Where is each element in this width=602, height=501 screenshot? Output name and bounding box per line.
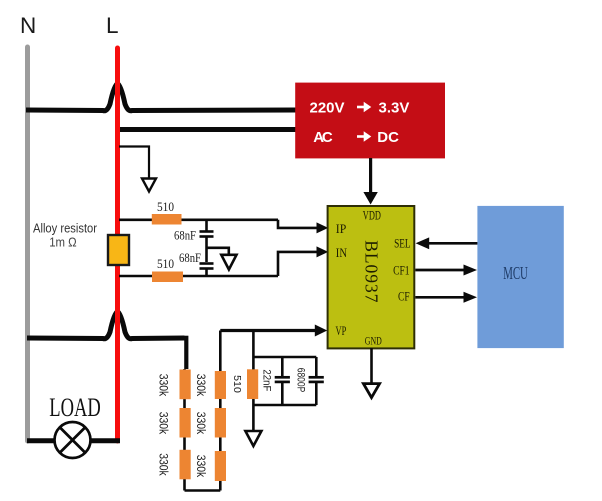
svg-text:AC: AC bbox=[313, 129, 333, 146]
svg-text:510: 510 bbox=[157, 200, 174, 214]
svg-text:1m Ω: 1m Ω bbox=[49, 235, 76, 249]
svg-text:N: N bbox=[20, 13, 36, 38]
svg-text:330k: 330k bbox=[194, 455, 206, 478]
svg-text:MCU: MCU bbox=[503, 263, 528, 283]
svg-text:22nF: 22nF bbox=[261, 369, 273, 391]
svg-text:330k: 330k bbox=[194, 374, 206, 397]
svg-text:330k: 330k bbox=[157, 374, 169, 397]
svg-text:CF1: CF1 bbox=[393, 264, 410, 278]
svg-text:GND: GND bbox=[365, 335, 382, 347]
svg-text:DC: DC bbox=[377, 129, 399, 146]
svg-text:68nF: 68nF bbox=[179, 251, 201, 265]
svg-text:VP: VP bbox=[336, 324, 347, 338]
svg-text:CF: CF bbox=[398, 289, 410, 303]
svg-text:VDD: VDD bbox=[363, 209, 381, 223]
svg-text:510: 510 bbox=[231, 375, 243, 393]
svg-text:L: L bbox=[106, 13, 119, 38]
svg-text:330k: 330k bbox=[157, 453, 169, 476]
svg-text:6800P: 6800P bbox=[295, 368, 307, 393]
svg-text:BL0937: BL0937 bbox=[361, 240, 381, 303]
svg-text:68nF: 68nF bbox=[174, 229, 196, 243]
svg-text:330k: 330k bbox=[157, 412, 169, 435]
svg-text:IN: IN bbox=[336, 246, 347, 260]
svg-text:IP: IP bbox=[336, 222, 347, 236]
svg-text:3.3V: 3.3V bbox=[379, 99, 410, 116]
svg-text:Alloy resistor: Alloy resistor bbox=[33, 221, 97, 235]
svg-text:330k: 330k bbox=[194, 412, 206, 435]
svg-text:510: 510 bbox=[157, 257, 174, 271]
svg-text:220V: 220V bbox=[310, 99, 345, 116]
svg-text:LOAD: LOAD bbox=[49, 393, 101, 422]
svg-text:SEL: SEL bbox=[394, 237, 411, 251]
